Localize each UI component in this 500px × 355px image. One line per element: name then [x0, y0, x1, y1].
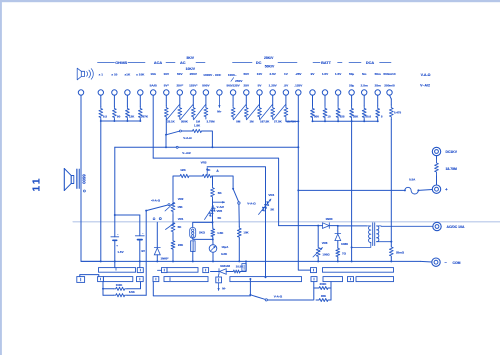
wire 22K to bus [172, 250, 174, 261]
wire B2 feed [153, 282, 250, 296]
svg-text:x 10: x 10 [111, 73, 117, 77]
resistor 10K [237, 227, 241, 239]
svg-text:10K: 10K [243, 231, 249, 235]
wire diode row to box B4 [218, 275, 220, 278]
wire diode to bus [156, 255, 158, 262]
svg-text:200K: 200K [181, 120, 189, 124]
svg-text:VR4: VR4 [268, 193, 274, 197]
resistor 25m&#937; [389, 246, 393, 257]
resistor 200K [316, 287, 331, 290]
svg-text:35K: 35K [321, 294, 326, 298]
section header dashes BATT [338, 62, 342, 64]
wire [192, 175, 200, 177]
wire secondary bottom [377, 241, 392, 243]
terminal COM [432, 258, 440, 266]
svg-text:5A/B: 5A/B [150, 84, 158, 88]
wire [436, 176, 438, 185]
wire [172, 215, 174, 222]
svg-text:0099: 0099 [82, 174, 87, 184]
junction [351, 120, 353, 122]
svg-text:DC1KV: DC1KV [446, 150, 458, 154]
wire lamp to bus [192, 252, 194, 262]
chain diagonal [180, 105, 193, 120]
resistor 3.75M [204, 106, 208, 120]
speaker coil [75, 169, 77, 189]
wafer box B8 [348, 277, 354, 282]
wafer bar B9 [356, 277, 394, 282]
wire speaker to bus [81, 188, 101, 261]
terminal DC1KV [432, 147, 440, 155]
wafer box B2 [153, 277, 159, 282]
svg-text:22K: 22K [178, 243, 184, 247]
svg-text:5V*: 5V* [164, 84, 170, 88]
svg-text:V-A-Ω: V-A-Ω [421, 73, 431, 77]
chain diagonal [194, 105, 206, 120]
transformer primary coil [367, 225, 371, 227]
switch V-A-&#937; bottom [250, 295, 265, 300]
wire switch pivot down [165, 135, 167, 148]
wire col23 [390, 95, 392, 99]
wire col2 [113, 95, 115, 106]
section header dashes DC [278, 62, 297, 64]
terminal circle col7 [177, 90, 182, 95]
svg-text:DC: DC [256, 61, 262, 65]
speaker [63, 169, 65, 191]
svg-text:12K: 12K [180, 168, 186, 172]
svg-text:33.1K: 33.1K [167, 120, 176, 124]
svg-text:-: - [117, 232, 118, 236]
svg-text:10µA: 10µA [221, 245, 229, 249]
wire main bus col16 down [297, 95, 299, 261]
potentiometer VR3 2K [199, 174, 215, 177]
potentiometer VR4 2K [265, 196, 267, 212]
ohms bus [101, 120, 141, 122]
wire battery top [115, 214, 140, 216]
arrow stub V-A/2 [213, 201, 225, 203]
resistor 7&#937; [337, 241, 339, 248]
wafer bar A4 [323, 268, 394, 273]
wire speaker terminal down [80, 95, 82, 168]
diode 1N60 vertical [337, 226, 339, 234]
terminal circle col10 [217, 90, 222, 95]
resistor 5M [231, 106, 235, 120]
terminal circle col22 [375, 90, 380, 95]
junction [139, 120, 141, 122]
resistor 25K [350, 106, 354, 120]
section header dash AC-DC [233, 62, 253, 64]
wafer box B0 [77, 277, 85, 283]
svg-text:5K/V: 5K/V [187, 56, 195, 60]
wire col9 [205, 95, 207, 105]
svg-text:125V*: 125V* [189, 84, 198, 88]
svg-text:OHMS: OHMS [115, 60, 127, 65]
svg-text:25mΩ: 25mΩ [396, 251, 405, 255]
terminal circle col2 [112, 90, 117, 95]
svg-text:-: - [142, 231, 143, 235]
resistor 50.6 [362, 106, 366, 120]
wire 5A feed [153, 158, 278, 226]
potentiometer VR2 15K [171, 200, 175, 215]
junction [377, 120, 379, 122]
page border left [0, 0, 2, 355]
neon lamp 2K&#937; [190, 227, 196, 238]
wire DC chain to bus [286, 119, 298, 121]
svg-text:110K: 110K [116, 283, 123, 287]
svg-text:x 1: x 1 [99, 73, 104, 77]
terminal circle col21 [362, 90, 367, 95]
resistor 200K [178, 106, 182, 120]
diode 1N4148 [218, 269, 220, 275]
wire col11 [232, 95, 234, 105]
svg-text:VR5: VR5 [217, 209, 223, 213]
svg-text:50µ: 50µ [349, 72, 354, 76]
terminal circle col20 [349, 90, 354, 95]
wire to left coil [338, 225, 367, 227]
svg-text:250V: 250V [190, 72, 198, 76]
svg-text:2.5V: 2.5V [270, 72, 277, 76]
svg-text:+: + [116, 244, 118, 248]
junction [212, 221, 214, 223]
wire VR3 wiper line to VR4 [207, 167, 265, 196]
svg-text:50V: 50V [244, 72, 250, 76]
wire [102, 282, 104, 296]
diode 1N60* [154, 247, 160, 249]
wafer box B4 [216, 277, 222, 283]
resistor 9.5 [99, 107, 103, 120]
svg-text:1.5V: 1.5V [322, 72, 329, 76]
wire primary bottom [352, 243, 371, 248]
junction [211, 146, 213, 148]
wire [211, 271, 220, 273]
svg-text:5M: 5M [236, 120, 241, 124]
svg-text:6.5K: 6.5K [129, 290, 135, 294]
wire battery1 down [114, 240, 116, 267]
svg-text:10: 10 [327, 115, 331, 119]
wire VR3 to switch corner [215, 176, 233, 189]
svg-text:3.2K: 3.2K [221, 252, 228, 256]
terminal circle col12 [244, 90, 249, 95]
wire [114, 215, 116, 237]
svg-text:ACA: ACA [154, 61, 162, 65]
terminal plus [432, 185, 440, 193]
wire col19 [337, 95, 339, 106]
wire col6 [165, 95, 167, 105]
resistor 27.5K [271, 106, 275, 120]
contact circle [176, 146, 178, 148]
wafer bar B5 [230, 277, 302, 282]
wire 10K to bus [238, 239, 240, 262]
wire fuse to + terminal [418, 189, 432, 192]
wire col17 [312, 95, 314, 106]
wire AC chain to switch [165, 119, 167, 135]
svg-text:V~A/2: V~A/2 [182, 151, 191, 155]
resistor 5K [211, 185, 215, 200]
chain diagonal [233, 105, 246, 120]
svg-text:9.5: 9.5 [103, 115, 108, 119]
wire corner to diode [279, 225, 323, 227]
svg-text:900: 900 [314, 115, 319, 119]
svg-text:.25V: .25V [295, 72, 302, 76]
wire col15 [285, 95, 287, 105]
wafer bar A3 [158, 269, 162, 271]
speaker terminal circle [78, 90, 83, 95]
wire col20 long down [351, 121, 353, 261]
wire col13 [259, 95, 261, 105]
terminal circle col23 [387, 90, 392, 95]
svg-text:11: 11 [31, 176, 43, 191]
wire B0 to B1 [80, 275, 99, 277]
svg-text:250V: 250V [235, 79, 243, 83]
terminal circle col1 [98, 90, 103, 95]
resistor 35K [316, 299, 331, 302]
svg-text:0.475: 0.475 [394, 111, 402, 115]
wire col8 [192, 95, 194, 105]
svg-text:V-A-Ω: V-A-Ω [274, 295, 283, 299]
chain diagonal [273, 105, 286, 120]
section header OHMS [98, 62, 115, 64]
battery 1.5V [111, 236, 119, 238]
svg-text:500/125V: 500/125V [226, 84, 240, 88]
resistor 625 [336, 106, 340, 120]
svg-text:3.75M: 3.75M [206, 120, 215, 124]
wire [139, 215, 141, 236]
resistor 167.5K [258, 106, 262, 120]
svg-text:AC: AC [180, 61, 186, 65]
wafer box A3b [203, 268, 209, 273]
wire col16 to wafer [298, 261, 310, 270]
svg-text:x 10K: x 10K [136, 73, 145, 77]
svg-text:25K: 25K [353, 115, 359, 119]
junction [312, 120, 314, 122]
svg-text:25V: 25V [244, 84, 250, 88]
section header dash DCA [380, 62, 391, 64]
terminal circle col18 [322, 90, 327, 95]
svg-text:V-A-Ω: V-A-Ω [183, 136, 192, 140]
junction [126, 120, 128, 122]
svg-text:27.5K: 27.5K [274, 120, 283, 124]
resistor 1M [244, 106, 248, 120]
coil circle [83, 190, 85, 192]
wire [172, 233, 174, 240]
wafer bar B7 [323, 277, 343, 282]
page fold line [73, 221, 500, 223]
junction [297, 120, 299, 122]
svg-text:•V-A-Ω: •V-A-Ω [151, 199, 161, 203]
wire secondary top to AC/DC [377, 225, 433, 227]
svg-text:VR2: VR2 [178, 197, 184, 201]
svg-text:50m: 50m [375, 72, 381, 76]
switch blade left [145, 210, 147, 212]
arrow M+ [218, 95, 220, 107]
junction [100, 260, 102, 262]
wire VR4 down to wafer [265, 212, 267, 277]
wire to fuse [298, 189, 404, 191]
wire [226, 271, 232, 273]
terminal circle col11 [230, 90, 235, 95]
terminal circle col15 [283, 90, 288, 95]
lamp lower element [191, 241, 196, 252]
wire V~A/2 line [115, 146, 176, 148]
svg-text:0.5A: 0.5A [409, 178, 416, 182]
batt dca bus [313, 120, 378, 122]
potentiometer VR1 5K [171, 222, 175, 234]
junction [100, 120, 102, 122]
potentiometer VR6 100&#937; [317, 226, 319, 246]
transformer secondary coil [377, 226, 379, 242]
wire col12 [245, 95, 247, 105]
svg-text:10K/V: 10K/V [186, 67, 196, 71]
terminal circle col14 [270, 90, 275, 95]
svg-text:9V: 9V [141, 249, 145, 253]
svg-text:12K: 12K [129, 115, 135, 119]
COM line [421, 260, 432, 263]
wire col4 [139, 95, 141, 106]
svg-text:1.5K: 1.5K [217, 231, 224, 235]
svg-text:x1K: x1K [125, 73, 131, 77]
switch V-A-&#937; mid [232, 188, 234, 190]
svg-text:10A: 10A [150, 72, 156, 76]
wafer bar A1 [99, 268, 136, 273]
resistor 900 [311, 106, 315, 120]
fuse 0.5A [404, 189, 406, 191]
wire col7 [179, 95, 181, 105]
svg-text:VR1: VR1 [178, 217, 184, 221]
svg-text:COM: COM [453, 261, 461, 265]
svg-text:Ω: Ω [153, 217, 156, 221]
resistor 367K [138, 107, 142, 120]
svg-text:BATT: BATT [321, 61, 332, 65]
wire [313, 282, 315, 300]
svg-text:250m/5: 250m/5 [384, 84, 395, 88]
svg-text:50K/V: 50K/V [265, 65, 275, 69]
wire corner to 12K [173, 176, 178, 200]
section header AC 5K/V 10K/V [166, 62, 175, 64]
switch V-A-&#937; 1.8K [165, 134, 167, 136]
wire col21 [363, 95, 365, 106]
terminal circle col8 [191, 90, 196, 95]
wire switch to 10K [238, 204, 240, 226]
svg-text:M-: M- [222, 287, 226, 291]
resistor 12K [126, 107, 130, 120]
wire 5K top [212, 176, 214, 185]
svg-text:10V: 10V [257, 72, 263, 76]
resistor 22K [171, 240, 175, 250]
wire 5A column [152, 95, 154, 158]
svg-text:V~A/2: V~A/2 [420, 83, 430, 87]
resistor 1.5K [211, 228, 215, 237]
svg-text:+: + [445, 187, 448, 192]
wire col18 [324, 95, 326, 106]
junction [337, 120, 339, 122]
wafer box A4 [311, 268, 317, 273]
speaker icon top [77, 68, 84, 80]
wire 1.8K to V~A/2 line [204, 131, 213, 147]
wire col23 long down [390, 120, 392, 247]
resistor 1M [191, 106, 195, 120]
svg-text:M+: M+ [217, 110, 221, 114]
svg-text:1N60*: 1N60* [160, 256, 169, 260]
terminal circle col3 [125, 90, 130, 95]
wafer bar B1 [98, 277, 104, 282]
wafer box B6 [311, 277, 317, 282]
svg-text:90: 90 [117, 115, 121, 119]
battery 9V [135, 235, 144, 237]
svg-text:1N4148: 1N4148 [220, 264, 230, 268]
svg-text:5m: 5m [362, 72, 367, 76]
wire B5 to pivot [249, 279, 251, 295]
svg-text:500V: 500V [202, 84, 210, 88]
arrow M- [218, 283, 220, 291]
terminal circle col9 [203, 90, 208, 95]
wire battery2 down [139, 240, 141, 268]
resistor 33.1K [164, 106, 168, 120]
terminal circle col4 [138, 90, 143, 95]
resistor 110K [114, 287, 128, 290]
svg-text:18.75M: 18.75M [446, 167, 457, 171]
wire left drop [114, 147, 116, 215]
potentiometer VR5 5K [212, 200, 214, 223]
main bottom bus [81, 260, 421, 262]
wire col14 [272, 95, 274, 105]
svg-text:VR3: VR3 [201, 161, 207, 165]
svg-text:1000V · OFF: 1000V · OFF [203, 73, 221, 77]
junction [363, 120, 365, 122]
terminal circle col6 [164, 90, 169, 95]
wafer box A2 [137, 268, 143, 273]
terminal circle col17 [310, 90, 315, 95]
resistor 5 [376, 106, 380, 120]
chain diagonal [167, 105, 180, 120]
svg-text:500m/10: 500m/10 [383, 72, 395, 76]
svg-text:DCA: DCA [366, 61, 374, 65]
wire x146 down [145, 211, 147, 296]
svg-text:2KΩ: 2KΩ [199, 231, 206, 235]
wire node down to 1.5K [212, 222, 214, 228]
wire ohms column down [100, 121, 102, 261]
svg-text:25µ: 25µ [349, 84, 354, 88]
wire col3 [126, 95, 128, 106]
junction wafer B5 [249, 278, 251, 280]
svg-text:167.5K: 167.5K [260, 120, 270, 124]
wire lamp bottom to 1.5K junction [193, 238, 213, 239]
svg-text:10V: 10V [164, 72, 170, 76]
terminal circle col16 [296, 90, 301, 95]
label slash [231, 78, 234, 82]
svg-text:AC/DC 10A: AC/DC 10A [447, 225, 465, 229]
svg-text:.125V: .125V [294, 84, 303, 88]
junction [317, 225, 319, 227]
svg-text:2.5m: 2.5m [361, 84, 368, 88]
svg-text:1.5V: 1.5V [335, 72, 342, 76]
svg-text:7Ω: 7Ω [342, 252, 347, 256]
resistor 12K [178, 174, 192, 177]
resistor 10 [323, 106, 327, 120]
svg-text:25K/V: 25K/V [264, 56, 274, 60]
wire diode to node [329, 225, 338, 227]
resistor 6.5K [114, 294, 128, 297]
resistor 90 [113, 107, 117, 120]
meter 10uA [209, 245, 217, 253]
svg-text:1000~: 1000~ [228, 73, 237, 77]
wire node to lamp [193, 222, 213, 227]
wire 10.5K up to bus [241, 261, 246, 271]
chain diagonal [260, 105, 273, 120]
wire switch to 35K [267, 299, 313, 301]
wire 1.5K to meter [212, 237, 214, 244]
svg-text:367K: 367K [141, 115, 149, 119]
terminal circle col5 [151, 90, 156, 95]
page border top [0, 0, 500, 2]
